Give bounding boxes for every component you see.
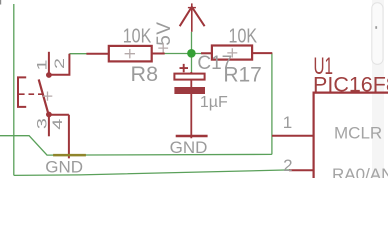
corner tick top-left — [0, 0, 1, 5]
contact arm — [39, 79, 49, 114]
svg-text:PIC16F8: PIC16F8 — [313, 73, 388, 97]
origin cross of switch — [43, 92, 53, 101]
actuator bracket — [18, 77, 26, 107]
pin 1 lead (MCLR) — [272, 135, 314, 137]
resistor R8 — [86, 46, 164, 62]
wire: junction vertical to +5V and C17 — [191, 32, 193, 74]
svg-text:10K: 10K — [229, 25, 258, 47]
wire: bottom net to RA0 pin 2 — [14, 170, 290, 176]
svg-text:10K: 10K — [123, 26, 152, 48]
switch S (tact switch) — [18, 52, 69, 159]
svg-text:1: 1 — [33, 59, 49, 70]
ground symbol under switch (bar overlaps green wire: olive) — [53, 154, 86, 157]
capacitor C17 (polarized) — [174, 64, 205, 138]
svg-text:GND: GND — [170, 138, 208, 157]
svg-text:2: 2 — [51, 58, 67, 69]
op IC U1 box — [314, 93, 388, 178]
scrollbar track (faint) — [372, 0, 384, 178]
wire: main horizontal net at top — [69, 53, 212, 55]
resistor R17 — [201, 46, 272, 60]
node: lower contact dot — [46, 112, 52, 118]
pin 4 stub — [49, 115, 69, 159]
svg-text:1µF: 1µF — [200, 94, 228, 111]
pin 2 lead (RA0) — [289, 169, 314, 171]
svg-text:RA0/AN0: RA0/AN0 — [332, 165, 388, 178]
origin cross of +5V symbol — [158, 43, 168, 53]
svg-text:GND: GND — [45, 157, 83, 176]
svg-text:4: 4 — [49, 119, 65, 130]
svg-text:2: 2 — [283, 156, 292, 175]
ground symbol under C17 — [176, 135, 208, 138]
pin 3 stub — [48, 115, 50, 137]
svg-text:3: 3 — [34, 118, 50, 129]
wire: left vertical net — [13, 4, 15, 175]
svg-text:MCLR: MCLR — [334, 124, 382, 143]
power +5V arrow symbol — [180, 3, 205, 31]
svg-text:1: 1 — [283, 113, 292, 132]
pin 2 stub — [49, 54, 70, 75]
svg-text:C17: C17 — [197, 53, 232, 74]
wire: vertical net right of R17 down to pin 1 — [271, 53, 273, 154]
pin 1 stub — [48, 52, 50, 75]
actuator dashed link — [19, 93, 47, 95]
wire: GND/lower net from left edge with diagonal — [0, 136, 272, 155]
svg-text:R8: R8 — [131, 62, 159, 86]
node: junction dot — [187, 49, 196, 58]
svg-text:5V: 5V — [154, 22, 175, 46]
node: upper contact dot — [46, 72, 52, 78]
scrollbar thumb — [372, 3, 383, 65]
